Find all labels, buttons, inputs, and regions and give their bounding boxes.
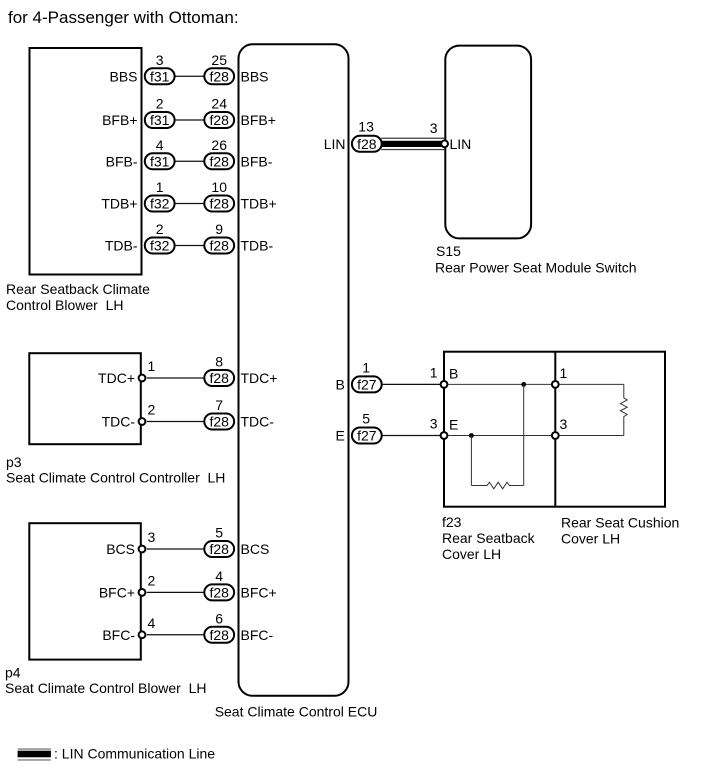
svg-text:Seat Climate Control Controlle: Seat Climate Control Controller LH bbox=[6, 469, 225, 485]
svg-text:TDB-: TDB- bbox=[241, 238, 274, 254]
svg-text:BFB-: BFB- bbox=[241, 153, 273, 169]
component box: p3 Seat Climate Control Controller LH bbox=[29, 353, 141, 444]
svg-text:for 4-Passenger with Ottoman:: for 4-Passenger with Ottoman: bbox=[8, 8, 239, 27]
svg-text:BFC+: BFC+ bbox=[99, 584, 135, 600]
connector f28 pin 5 bbox=[204, 541, 234, 557]
connector f31 pin 2 bbox=[145, 112, 175, 128]
component box: Rear Seatback Climate Control Blower LH bbox=[30, 48, 142, 275]
svg-text:Cover LH: Cover LH bbox=[561, 531, 620, 547]
svg-text:BCS: BCS bbox=[106, 541, 135, 557]
svg-text:E: E bbox=[335, 428, 344, 444]
svg-text:3: 3 bbox=[430, 120, 438, 136]
svg-text:13: 13 bbox=[358, 118, 374, 134]
wire B row inside f23 (left edge to divider) bbox=[448, 383, 552, 385]
svg-text:f31: f31 bbox=[150, 112, 170, 128]
svg-text:BFC+: BFC+ bbox=[241, 584, 277, 600]
pin circle: f23 pin 1 bbox=[441, 381, 448, 388]
svg-text:2: 2 bbox=[148, 402, 156, 418]
svg-text:2: 2 bbox=[156, 221, 164, 237]
svg-text:Rear Seatback Climate: Rear Seatback Climate bbox=[6, 281, 150, 297]
svg-text:BFC-: BFC- bbox=[241, 627, 274, 643]
svg-text:f28: f28 bbox=[209, 370, 229, 386]
connector f28 pin 13 bbox=[352, 136, 382, 152]
label: p3 Seat Climate Control Controller LH bbox=[6, 454, 225, 486]
component box: S15 Rear Power Seat Module Switch bbox=[445, 46, 531, 239]
connector f28 pin 9 bbox=[204, 238, 234, 254]
svg-text:f31: f31 bbox=[150, 153, 170, 169]
svg-text:7: 7 bbox=[215, 397, 223, 413]
svg-text:Seat Climate Control Blower L: Seat Climate Control Blower LH bbox=[5, 680, 207, 696]
svg-text:f28: f28 bbox=[357, 136, 377, 152]
svg-text:f28: f28 bbox=[209, 584, 229, 600]
svg-text:B: B bbox=[449, 365, 458, 381]
wire BFB+: f31 to f28 bbox=[175, 119, 204, 121]
svg-text:2: 2 bbox=[156, 96, 164, 112]
junction dot on E row bbox=[469, 433, 474, 438]
wire BCS: device to f28 bbox=[147, 548, 205, 550]
pin circle: divider pin 3 bbox=[552, 432, 559, 439]
connector f28 pin 4 bbox=[204, 584, 234, 600]
pin circle: divider pin 1 bbox=[552, 381, 559, 388]
svg-text:4: 4 bbox=[215, 568, 223, 584]
wire B row in cushion cover (divider to resistor) bbox=[559, 383, 624, 385]
svg-text:f27: f27 bbox=[357, 428, 377, 444]
svg-text:10: 10 bbox=[211, 179, 227, 195]
svg-text:f27: f27 bbox=[357, 376, 377, 392]
svg-text:TDC+: TDC+ bbox=[241, 370, 278, 386]
svg-text:24: 24 bbox=[211, 96, 227, 112]
svg-text:f28: f28 bbox=[209, 414, 229, 430]
svg-text:: LIN Communication Line: : LIN Communication Line bbox=[54, 746, 215, 762]
wire E: f27 to f23 bbox=[382, 435, 444, 437]
svg-text:TDC+: TDC+ bbox=[98, 370, 135, 386]
connector f31 pin 4 bbox=[145, 153, 175, 169]
connector f28 pin 6 bbox=[204, 627, 234, 643]
svg-text:4: 4 bbox=[156, 137, 164, 153]
svg-text:6: 6 bbox=[215, 610, 223, 626]
svg-text:f28: f28 bbox=[209, 238, 229, 254]
svg-text:3: 3 bbox=[430, 416, 438, 432]
connector f28 pin 26 bbox=[204, 153, 234, 169]
svg-text:3: 3 bbox=[156, 52, 164, 68]
legend: LIN communication line symbol bbox=[18, 748, 51, 760]
svg-text:8: 8 bbox=[215, 354, 223, 370]
svg-text:Rear Power Seat Module Switch: Rear Power Seat Module Switch bbox=[435, 260, 637, 276]
connector f28 pin 8 bbox=[204, 370, 234, 386]
svg-text:BFC-: BFC- bbox=[102, 627, 135, 643]
wire from E-row junction down bbox=[470, 436, 472, 486]
svg-text:E: E bbox=[449, 417, 458, 433]
svg-text:f28: f28 bbox=[209, 196, 229, 212]
connector f27 pin 5 bbox=[352, 428, 382, 444]
wire BFC-: device to f28 bbox=[147, 634, 205, 636]
wire BFC+: device to f28 bbox=[147, 591, 205, 593]
svg-text:BBS: BBS bbox=[109, 68, 137, 84]
svg-text:9: 9 bbox=[215, 221, 223, 237]
svg-text:p3: p3 bbox=[6, 454, 22, 470]
component box: Seat Climate Control ECU bbox=[239, 44, 349, 696]
svg-text:Seat Climate Control ECU: Seat Climate Control ECU bbox=[215, 704, 378, 720]
svg-text:TDB+: TDB+ bbox=[101, 196, 137, 212]
connector f28 pin 10 bbox=[204, 196, 234, 212]
svg-text:BFB-: BFB- bbox=[106, 153, 138, 169]
wire from B-row junction down bbox=[523, 384, 525, 485]
LIN communication line (thick bus) bbox=[381, 138, 444, 151]
svg-text:2: 2 bbox=[148, 572, 156, 588]
component box: f23 Rear Seatback Cover LH / Rear Seat Cushion Cover LH bbox=[444, 352, 665, 507]
component box: p4 Seat Climate Control Blower LH bbox=[29, 523, 141, 659]
svg-text:LIN: LIN bbox=[324, 136, 346, 152]
svg-text:26: 26 bbox=[211, 137, 227, 153]
wire TDB+: f32 to f28 bbox=[175, 203, 204, 205]
resistor (seat cushion heater element) vertical with leads bbox=[620, 384, 627, 435]
pin circle: S15 pin 3 bbox=[441, 140, 448, 147]
svg-text:1: 1 bbox=[362, 359, 370, 375]
svg-text:Rear Seatback: Rear Seatback bbox=[442, 530, 536, 546]
wire TDB-: f32 to f28 bbox=[175, 245, 204, 247]
label: Rear Seatback Climate Control Blower LH bbox=[6, 281, 150, 313]
svg-text:TDC-: TDC- bbox=[241, 414, 275, 430]
svg-text:Control Blower LH: Control Blower LH bbox=[6, 297, 124, 313]
svg-text:LIN: LIN bbox=[450, 136, 472, 152]
svg-text:1: 1 bbox=[560, 365, 568, 381]
svg-text:f23: f23 bbox=[442, 514, 462, 530]
connector f32 pin 1 bbox=[145, 196, 175, 212]
pin circle: pin 4 bbox=[139, 631, 146, 638]
label: f23 Rear Seatback Cover LH bbox=[442, 514, 536, 562]
wire BBS: f31 to f28 bbox=[175, 75, 204, 77]
svg-text:BBS: BBS bbox=[241, 68, 269, 84]
svg-text:S15: S15 bbox=[436, 243, 461, 259]
svg-text:5: 5 bbox=[215, 525, 223, 541]
svg-text:BFB+: BFB+ bbox=[102, 112, 137, 128]
wire TDC-: device to f28 bbox=[147, 421, 205, 423]
wire E row in cushion cover (divider to resistor) bbox=[559, 435, 624, 437]
svg-text:p4: p4 bbox=[5, 665, 21, 681]
svg-text:1: 1 bbox=[148, 358, 156, 374]
svg-text:f28: f28 bbox=[209, 541, 229, 557]
svg-text:f32: f32 bbox=[150, 196, 170, 212]
pin circle: pin 2 bbox=[139, 589, 146, 596]
wire E row inside f23 (left edge to divider) bbox=[448, 435, 552, 437]
svg-text:f28: f28 bbox=[209, 627, 229, 643]
connector f28 pin 24 bbox=[204, 112, 234, 128]
connector f28 pin 7 bbox=[204, 414, 234, 430]
junction dot on B row bbox=[521, 382, 526, 387]
wire TDC+: device to f28 bbox=[147, 377, 205, 379]
pin circle: pin 2 bbox=[139, 418, 146, 425]
svg-text:3: 3 bbox=[148, 529, 156, 545]
pin circle: f23 pin 3 bbox=[441, 432, 448, 439]
svg-text:Cover LH: Cover LH bbox=[442, 546, 501, 562]
svg-text:f32: f32 bbox=[150, 238, 170, 254]
svg-text:3: 3 bbox=[560, 416, 568, 432]
svg-text:f28: f28 bbox=[209, 112, 229, 128]
connector f32 pin 2 bbox=[145, 238, 175, 254]
svg-text:f31: f31 bbox=[150, 68, 170, 84]
label: p4 Seat Climate Control Blower LH bbox=[5, 665, 207, 696]
svg-text:B: B bbox=[335, 376, 344, 392]
svg-text:f28: f28 bbox=[209, 153, 229, 169]
connector f27 pin 1 bbox=[352, 376, 382, 392]
pin circle: pin 3 bbox=[139, 546, 146, 553]
connector f28 pin 25 bbox=[204, 68, 234, 84]
svg-text:TDB-: TDB- bbox=[105, 238, 138, 254]
svg-text:4: 4 bbox=[148, 615, 156, 631]
divider between seatback cover and cushion cover bbox=[554, 352, 556, 507]
svg-text:TDB+: TDB+ bbox=[241, 196, 277, 212]
wire BFB-: f31 to f28 bbox=[175, 160, 204, 162]
wire B: f27 to f23 bbox=[382, 383, 444, 385]
label: S15 Rear Power Seat Module Switch bbox=[435, 243, 637, 276]
connector f31 pin 3 bbox=[145, 68, 175, 84]
label: Rear Seat Cushion Cover LH bbox=[561, 515, 679, 547]
pin circle: pin 1 bbox=[139, 375, 146, 382]
svg-text:BFB+: BFB+ bbox=[241, 112, 276, 128]
svg-text:f28: f28 bbox=[209, 68, 229, 84]
svg-text:1: 1 bbox=[430, 364, 438, 380]
resistor (seatback sensor element) horizontal with leads bbox=[471, 482, 523, 489]
svg-text:5: 5 bbox=[362, 411, 370, 427]
svg-text:1: 1 bbox=[156, 179, 164, 195]
svg-text:TDC-: TDC- bbox=[102, 414, 136, 430]
svg-text:Rear Seat Cushion: Rear Seat Cushion bbox=[561, 515, 679, 531]
svg-text:BCS: BCS bbox=[241, 541, 270, 557]
svg-text:25: 25 bbox=[211, 52, 227, 68]
